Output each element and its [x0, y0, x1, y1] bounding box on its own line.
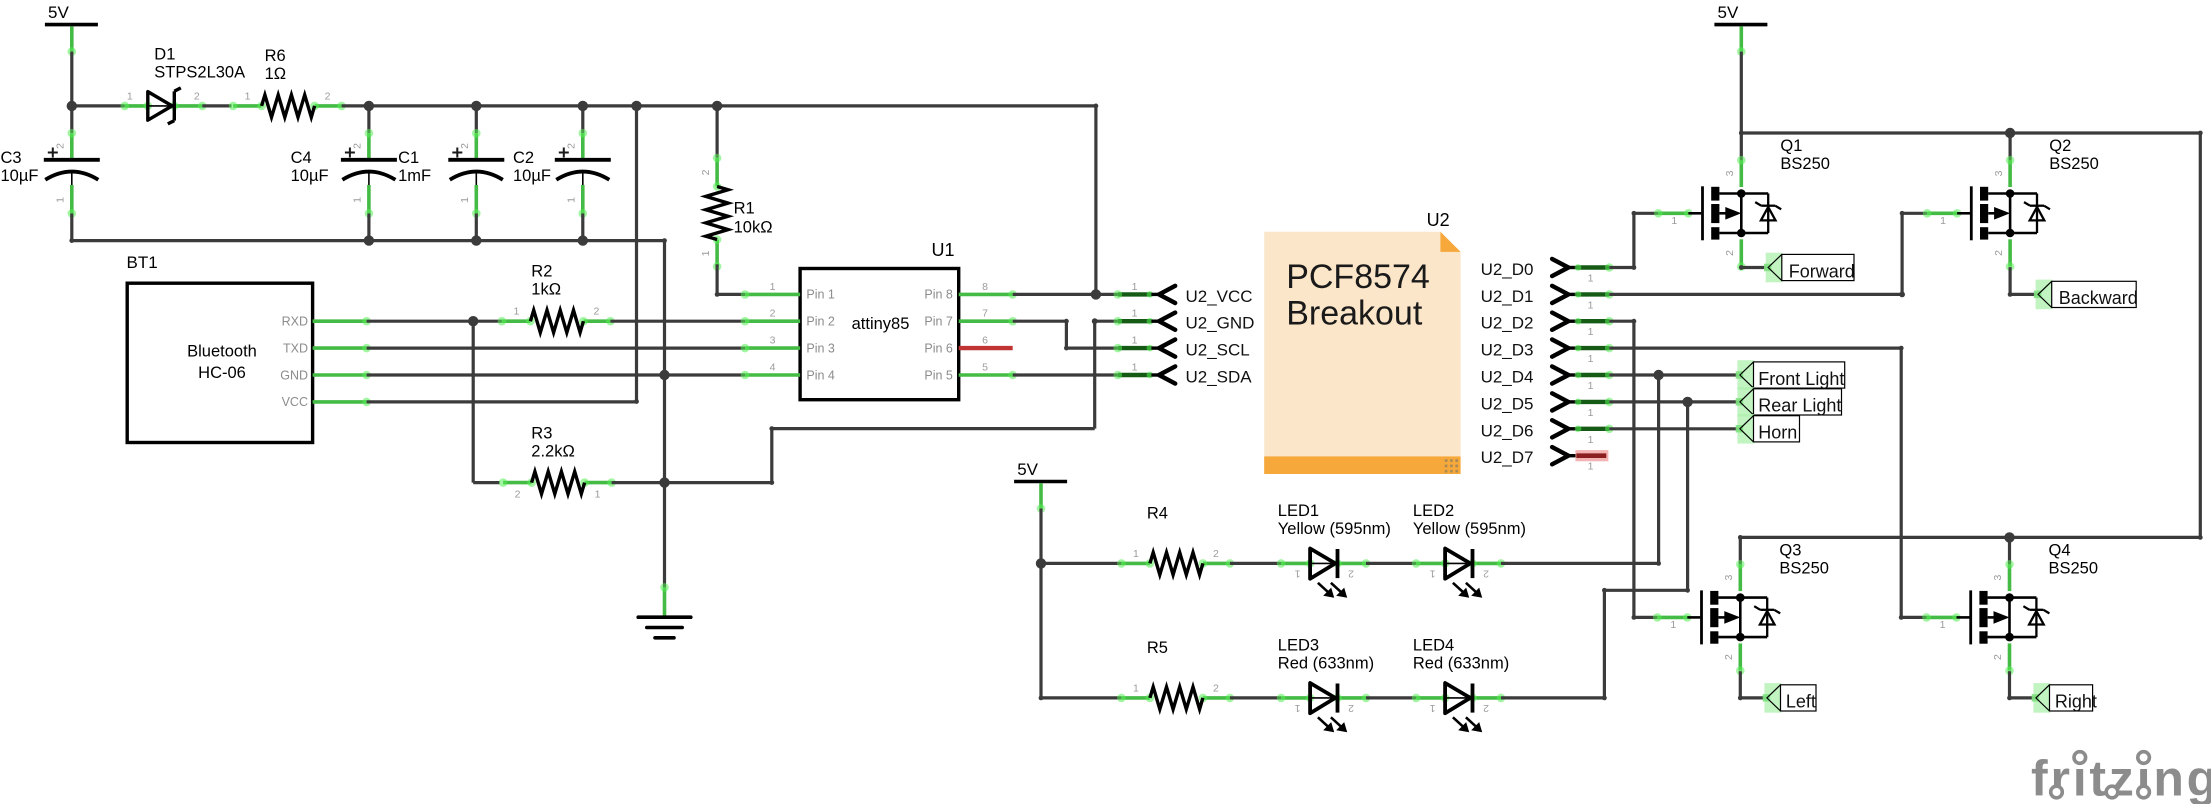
wire 5V to BT1 VCC	[635, 106, 638, 402]
svg-text:1: 1	[1588, 326, 1594, 338]
junction gnd rail C2	[578, 235, 588, 245]
svg-text:Pin 7: Pin 7	[924, 315, 953, 329]
wire RXD down to R3	[472, 321, 475, 482]
svg-text:1: 1	[54, 197, 66, 203]
svg-text:Rear Light: Rear Light	[1758, 396, 1841, 416]
wire D0	[1609, 266, 1634, 269]
svg-text:1: 1	[245, 90, 251, 102]
wire down to R5 row	[1039, 563, 1042, 698]
wire to R4	[1041, 562, 1121, 565]
wire C3 to gnd rail	[70, 213, 73, 240]
wire C2 to gnd rail	[581, 213, 584, 240]
svg-text:GND: GND	[280, 368, 308, 382]
wire D5 down	[1686, 402, 1689, 590]
svg-text:Pin 1: Pin 1	[806, 288, 835, 302]
wire D5 to Rear Light	[1609, 400, 1740, 403]
svg-text:5V: 5V	[48, 3, 69, 22]
net flag Backward	[2034, 280, 2138, 310]
svg-text:2: 2	[351, 143, 363, 149]
svg-text:2: 2	[194, 90, 200, 102]
svg-text:LED4: LED4	[1413, 637, 1454, 655]
svg-text:U2_D1: U2_D1	[1481, 287, 1534, 306]
resistor R5	[1117, 682, 1234, 709]
wire to U2_GND stub	[1095, 320, 1118, 323]
wire LED3 to LED4	[1366, 696, 1416, 699]
wire LED4 to D5 net	[1501, 696, 1604, 699]
svg-text:1: 1	[1940, 619, 1946, 631]
wire D0 to Q1 gate	[1634, 212, 1658, 215]
svg-text:2: 2	[700, 169, 712, 175]
svg-text:U2_D6: U2_D6	[1481, 421, 1534, 440]
net label U2_D6	[1481, 420, 1614, 446]
svg-text:1: 1	[1588, 434, 1594, 446]
bend	[1602, 696, 1607, 701]
watermark fritzing	[2031, 750, 2211, 804]
svg-text:C3: C3	[1, 149, 22, 167]
transistor Q4	[1922, 560, 2049, 675]
wire D2	[1609, 320, 1634, 323]
svg-text:attiny85: attiny85	[852, 315, 910, 333]
wire D1 to R6	[202, 104, 231, 107]
junction gnd rail C4	[364, 235, 374, 245]
svg-text:3: 3	[770, 335, 776, 347]
svg-text:2: 2	[515, 489, 521, 501]
svg-text:1: 1	[1588, 380, 1594, 392]
bend	[1632, 211, 1637, 216]
bend	[769, 426, 774, 431]
wire D1 up	[1900, 213, 1903, 294]
svg-text:PCF8574: PCF8574	[1286, 258, 1430, 296]
svg-text:BS250: BS250	[2049, 155, 2099, 173]
junction rail	[631, 101, 641, 111]
svg-text:U2_D5: U2_D5	[1481, 394, 1534, 413]
svg-text:1: 1	[1588, 273, 1594, 285]
wire gnd net right	[665, 481, 772, 484]
bend	[1092, 318, 1098, 324]
wire right edge down	[2199, 133, 2202, 537]
svg-text:Bluetooth: Bluetooth	[187, 343, 257, 361]
svg-text:10kΩ: 10kΩ	[734, 218, 773, 236]
net label U2_D5	[1481, 393, 1614, 419]
svg-text:Front Light: Front Light	[1758, 369, 1844, 389]
wire to Backward	[2010, 293, 2038, 296]
svg-text:LED1: LED1	[1278, 502, 1319, 520]
wire D6 to Horn	[1609, 427, 1740, 430]
svg-text:Pin 6: Pin 6	[924, 341, 953, 355]
pin 6 unrouted stub	[924, 335, 1012, 356]
svg-text:R4: R4	[1147, 504, 1168, 522]
bend	[2007, 696, 2012, 701]
svg-text:10µF: 10µF	[1, 167, 39, 185]
svg-text:1: 1	[127, 90, 133, 102]
wire LED1 to LED2	[1366, 562, 1416, 565]
bend	[1900, 211, 1905, 216]
wire Q rail top	[1741, 131, 2200, 134]
bend	[1039, 696, 1044, 701]
svg-text:STPS2L30A: STPS2L30A	[154, 64, 245, 82]
power 5V top-right	[1714, 3, 1767, 56]
net label U2_D1	[1481, 286, 1614, 312]
wire 5V drop Q	[1740, 52, 1743, 133]
bend	[1602, 588, 1607, 593]
net label U2_VCC	[1114, 281, 1253, 306]
bend	[1739, 131, 1744, 136]
net flag Left	[1763, 683, 1816, 713]
wire C1 to gnd rail	[475, 213, 478, 240]
svg-text:1: 1	[770, 281, 776, 293]
svg-text:R1: R1	[734, 200, 755, 218]
net label U2_GND	[1114, 308, 1255, 333]
wire to R3 left	[473, 481, 500, 484]
svg-text:1: 1	[1132, 281, 1138, 293]
svg-text:1: 1	[1132, 362, 1138, 374]
net flag Right	[2032, 683, 2097, 713]
svg-text:U2_SCL: U2_SCL	[1186, 341, 1250, 360]
net label U2_SDA	[1114, 362, 1253, 387]
svg-text:Red (633nm): Red (633nm)	[1413, 655, 1509, 673]
svg-text:TXD: TXD	[283, 341, 308, 355]
resistor R1	[700, 154, 728, 271]
svg-text:C1: C1	[398, 149, 419, 167]
svg-text:Pin 4: Pin 4	[806, 368, 835, 382]
LED LED3	[1277, 683, 1371, 732]
svg-text:1: 1	[1295, 702, 1301, 714]
wire D3 down	[1900, 348, 1903, 617]
bend	[69, 238, 74, 243]
wire D1	[1609, 293, 1902, 296]
svg-text:2: 2	[770, 308, 776, 320]
wire rail to R1	[715, 106, 718, 158]
net flag Rear Light	[1736, 387, 1842, 417]
wire rail after R6	[342, 104, 1096, 107]
svg-text:2: 2	[1993, 250, 2005, 256]
svg-text:3: 3	[1992, 575, 2004, 581]
wire Q rail bottom	[1740, 536, 2200, 539]
wire 5V rail down to VCC	[1094, 106, 1097, 295]
net flag Front Light	[1736, 360, 1845, 390]
wire Q4 source down	[2008, 671, 2011, 698]
svg-text:1Ω: 1Ω	[265, 65, 287, 83]
svg-text:Q1: Q1	[1780, 137, 1802, 155]
svg-text:3: 3	[1723, 575, 1735, 581]
wire R4 to LED1	[1230, 562, 1281, 565]
wire to U1 pin1	[717, 293, 745, 296]
wire R2 to pin2	[610, 320, 745, 323]
wire D2 down	[1632, 321, 1635, 617]
wire to Left	[1740, 696, 1767, 699]
bend	[1632, 319, 1637, 324]
wire to R5	[1041, 696, 1121, 699]
wire to Forward	[1741, 266, 1768, 269]
svg-text:3: 3	[1724, 170, 1736, 176]
wire D4 down to LEDs	[1657, 375, 1660, 563]
svg-text:Pin 8: Pin 8	[924, 288, 953, 302]
net label U2_D0	[1481, 259, 1614, 285]
svg-text:Q4: Q4	[2049, 541, 2071, 559]
svg-text:1: 1	[1132, 308, 1138, 320]
LED LED2	[1412, 549, 1506, 598]
bend rail corner	[1094, 104, 1099, 109]
wire ground vertical	[663, 241, 666, 588]
junction LED rows	[1036, 558, 1046, 568]
bend	[1738, 535, 1743, 540]
svg-text:U1: U1	[931, 240, 954, 260]
svg-text:2: 2	[565, 143, 577, 149]
bend	[1632, 615, 1637, 620]
capacitor C4	[341, 129, 397, 218]
wire D4 to Front Light	[1609, 373, 1740, 376]
wire gnd net up	[770, 429, 773, 483]
svg-text:1: 1	[459, 197, 471, 203]
svg-text:1kΩ: 1kΩ	[531, 280, 561, 298]
bend	[1632, 265, 1637, 270]
svg-text:6: 6	[982, 335, 988, 347]
junction Q4 drain	[2004, 532, 2014, 542]
wire to C2	[581, 106, 584, 133]
IC BT1 Bluetooth HC-06	[127, 253, 371, 443]
bend	[769, 480, 774, 485]
bend	[715, 292, 720, 297]
svg-text:U2_VCC: U2_VCC	[1186, 287, 1253, 306]
wire Q1 source	[1740, 266, 1743, 270]
svg-text:BS250: BS250	[2049, 559, 2099, 577]
svg-text:1: 1	[1430, 702, 1436, 714]
svg-text:4: 4	[770, 362, 776, 374]
wire 5V drop	[70, 52, 73, 106]
svg-text:Yellow (595nm): Yellow (595nm)	[1278, 520, 1391, 538]
junction GND	[659, 370, 669, 380]
junction rail	[471, 101, 481, 111]
wire D5 across	[1604, 589, 1687, 592]
svg-text:RXD: RXD	[282, 315, 308, 329]
wire TXD to pin3	[367, 347, 745, 350]
wire gnd net across	[772, 427, 1095, 430]
bend	[1739, 265, 1744, 270]
svg-text:U2_SDA: U2_SDA	[1186, 368, 1253, 387]
svg-text:2: 2	[1724, 250, 1736, 256]
svg-text:2: 2	[1348, 567, 1354, 579]
svg-text:1: 1	[700, 250, 712, 256]
svg-text:R2: R2	[531, 262, 552, 280]
junction D4	[1653, 370, 1663, 380]
wire to C3	[70, 106, 73, 133]
svg-text:LED3: LED3	[1278, 637, 1319, 655]
svg-text:R6: R6	[265, 47, 286, 65]
svg-text:Breakout: Breakout	[1286, 294, 1423, 332]
bend	[1899, 615, 1904, 620]
svg-text:BS250: BS250	[1780, 155, 1830, 173]
IC U1 attiny85	[741, 240, 1017, 400]
svg-text:10µF: 10µF	[291, 167, 329, 185]
junction rail	[364, 101, 374, 111]
capacitor C2	[555, 129, 611, 218]
bend	[1899, 292, 1905, 298]
svg-text:D1: D1	[154, 46, 175, 64]
bend	[2198, 131, 2203, 136]
svg-text:U2: U2	[1427, 210, 1450, 230]
power 5V top-left	[45, 3, 98, 56]
wire to C4	[367, 106, 370, 133]
wire D2 to Q3 gate	[1634, 616, 1657, 619]
svg-text:HC-06: HC-06	[198, 364, 246, 382]
svg-text:Left: Left	[1786, 692, 1816, 712]
wire down to LED4	[1603, 590, 1606, 698]
junction RXD	[468, 316, 478, 326]
svg-text:Pin 5: Pin 5	[924, 368, 953, 382]
svg-text:LED2: LED2	[1413, 502, 1454, 520]
svg-text:1: 1	[1588, 461, 1594, 473]
capacitor C3	[44, 129, 100, 218]
wire D1 to Q2 gate	[1902, 212, 1927, 215]
svg-text:1: 1	[565, 197, 577, 203]
wire rail to Q3 drain	[1739, 537, 1742, 564]
bend	[1064, 319, 1069, 324]
net flag Forward	[1764, 253, 1855, 283]
wire to U2_SCL	[1066, 347, 1117, 350]
svg-text:1: 1	[1588, 407, 1594, 419]
svg-text:Forward: Forward	[1789, 261, 1855, 281]
junction 5V/rail	[67, 101, 77, 111]
ground	[638, 583, 691, 638]
wire to C1	[475, 106, 478, 133]
bend	[1899, 346, 1904, 351]
resistor R4	[1117, 548, 1234, 575]
wire Q3 source down	[1739, 671, 1742, 698]
junction VCC	[1091, 289, 1101, 299]
svg-text:Pin 2: Pin 2	[806, 315, 835, 329]
wire rail to Q1 drain	[1740, 133, 1743, 160]
capacitor C1	[448, 129, 504, 218]
wire R5 to LED3	[1230, 696, 1281, 699]
power 5V bottom	[1014, 460, 1067, 513]
svg-text:1: 1	[1670, 619, 1676, 631]
svg-text:Yellow (595nm): Yellow (595nm)	[1413, 520, 1526, 538]
junction D5	[1682, 397, 1692, 407]
wire 5V drop LED	[1039, 509, 1042, 564]
junction rail	[578, 101, 588, 111]
svg-text:2: 2	[1992, 654, 2004, 660]
junction rail	[712, 101, 722, 111]
wire gnd net up to label	[1093, 321, 1096, 428]
wire to R2	[473, 320, 502, 323]
bend	[1738, 696, 1743, 701]
wire C4 to gnd rail	[367, 213, 370, 240]
net flag Horn	[1736, 414, 1800, 444]
svg-text:U2_D2: U2_D2	[1481, 314, 1534, 333]
resistor R2	[498, 306, 615, 333]
svg-text:1: 1	[513, 306, 519, 318]
wire rail to Q2 drain	[2008, 133, 2011, 160]
wire R3 right	[612, 481, 665, 484]
svg-text:1: 1	[1133, 548, 1139, 560]
wire GND to pin4	[367, 373, 745, 376]
svg-text:Horn: Horn	[1758, 423, 1797, 443]
LED LED4	[1412, 683, 1506, 732]
net label U2_D3	[1481, 340, 1614, 366]
svg-text:2: 2	[325, 90, 331, 102]
wire RXD	[367, 320, 474, 323]
svg-text:1: 1	[1430, 567, 1436, 579]
junction gnd rail C1	[471, 235, 481, 245]
svg-text:1: 1	[1588, 299, 1594, 311]
svg-text:1: 1	[1133, 682, 1139, 694]
svg-text:3: 3	[1993, 170, 2005, 176]
svg-text:2: 2	[593, 306, 599, 318]
wire rail to Q4 drain	[2008, 537, 2011, 564]
svg-text:10µF: 10µF	[513, 167, 551, 185]
transistor Q3	[1653, 560, 1780, 675]
svg-text:5V: 5V	[1017, 460, 1038, 479]
resistor R3	[499, 472, 616, 501]
note U2 PCF8574 Breakout	[1264, 210, 1460, 474]
transistor Q2	[1923, 156, 2050, 271]
bend	[1685, 588, 1690, 593]
svg-text:C4: C4	[291, 149, 312, 167]
wire to Right	[2010, 696, 2037, 699]
wire pin7	[1013, 320, 1067, 323]
net label U2_D4	[1481, 366, 1614, 392]
net label U2_D2	[1481, 313, 1614, 339]
svg-text:U2_D7: U2_D7	[1481, 448, 1534, 467]
svg-text:BS250: BS250	[1779, 559, 1829, 577]
net label U2_D7	[1481, 447, 1609, 473]
net label U2_SCL	[1114, 335, 1250, 360]
svg-text:1: 1	[351, 197, 363, 203]
wire ground rail	[72, 239, 665, 242]
svg-text:Q2: Q2	[2049, 137, 2071, 155]
svg-text:2: 2	[459, 143, 471, 149]
svg-text:2: 2	[1213, 548, 1219, 560]
svg-text:VCC: VCC	[282, 395, 308, 409]
svg-text:5: 5	[982, 362, 988, 374]
wire pin5 to U2_SDA	[1013, 373, 1118, 376]
svg-text:7: 7	[982, 308, 988, 320]
svg-text:2.2kΩ: 2.2kΩ	[531, 442, 575, 460]
svg-text:1mF: 1mF	[398, 167, 431, 185]
svg-text:1: 1	[1671, 215, 1677, 227]
junction Q2 drain	[2005, 128, 2015, 138]
bend	[2198, 535, 2203, 540]
svg-text:2: 2	[1483, 702, 1489, 714]
wire pin7 down	[1065, 321, 1068, 348]
svg-text:2: 2	[54, 143, 66, 149]
svg-text:U2_D4: U2_D4	[1481, 368, 1534, 387]
bend	[2008, 292, 2013, 297]
wire LED2 to D4 net	[1501, 562, 1659, 565]
resistor R6	[229, 90, 346, 117]
wire D3	[1609, 347, 1901, 350]
svg-text:U2_D3: U2_D3	[1481, 341, 1534, 360]
wire R1 to pin1	[715, 264, 718, 294]
svg-text:1: 1	[595, 489, 601, 501]
svg-text:1: 1	[1588, 353, 1594, 365]
svg-text:BT1: BT1	[127, 253, 158, 272]
svg-text:Backward: Backward	[2059, 288, 2138, 308]
svg-text:Right: Right	[2055, 692, 2097, 712]
svg-text:1: 1	[1295, 567, 1301, 579]
svg-text:1: 1	[1132, 335, 1138, 347]
diode D1	[121, 88, 207, 124]
bend	[1656, 561, 1661, 566]
wire D3 to Q4 gate	[1901, 616, 1926, 619]
wire D0 up	[1632, 213, 1635, 267]
svg-text:U2_GND: U2_GND	[1186, 314, 1255, 333]
svg-text:5V: 5V	[1718, 3, 1739, 22]
svg-text:R5: R5	[1147, 639, 1168, 657]
svg-text:Pin 3: Pin 3	[806, 341, 835, 355]
svg-text:2: 2	[1483, 567, 1489, 579]
svg-text:R3: R3	[531, 424, 552, 442]
